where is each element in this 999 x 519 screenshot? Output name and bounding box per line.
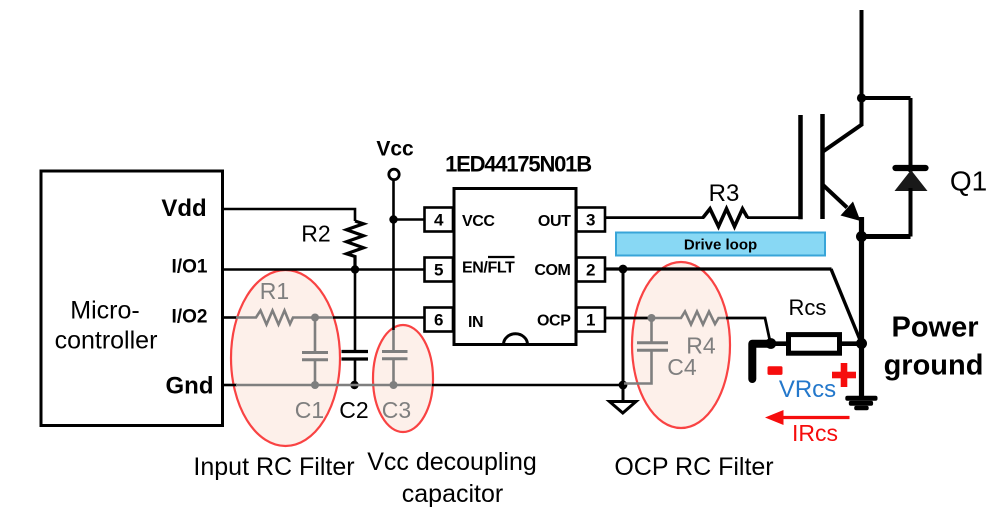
svg-text:capacitor: capacitor <box>402 480 503 508</box>
label IRcs (red) <box>792 420 838 446</box>
wire COM pin 2 rail <box>605 267 832 270</box>
svg-text:VCC: VCC <box>462 213 495 230</box>
wire emitter to diode bottom <box>862 234 911 239</box>
svg-text:IRcs: IRcs <box>792 420 838 446</box>
svg-text:R2: R2 <box>301 221 330 247</box>
resistor R4 <box>652 312 728 359</box>
svg-text:Drive loop: Drive loop <box>684 237 757 254</box>
node I/O1 / R2 / C2 junction <box>351 265 359 273</box>
svg-text:C2: C2 <box>339 397 368 423</box>
wire Vcc vertical <box>392 180 395 330</box>
svg-text:Vcc decoupling: Vcc decoupling <box>367 448 537 476</box>
svg-text:controller: controller <box>55 327 158 355</box>
node OCP / C4 junction <box>648 314 656 322</box>
svg-text:EN/FLT: EN/FLT <box>462 260 515 277</box>
svg-text:Rcs: Rcs <box>789 295 827 320</box>
svg-text:C1: C1 <box>295 397 324 423</box>
svg-text:R3: R3 <box>709 180 740 207</box>
wire OUT pin 3 to R3 <box>605 216 704 219</box>
node power ground / Rcs right <box>856 338 867 349</box>
wire Vdd from microcontroller to R2 top <box>223 209 356 221</box>
node C3 / Gnd junction <box>390 381 398 389</box>
label plus (red) <box>832 363 856 387</box>
node C2 / Gnd junction <box>350 381 358 389</box>
svg-text:6: 6 <box>434 311 443 330</box>
svg-text:OCP: OCP <box>537 313 571 330</box>
wire R1 junction to IN pin 6 <box>315 316 425 319</box>
svg-text:Q1: Q1 <box>950 166 987 197</box>
svg-text:C3: C3 <box>382 397 411 423</box>
drive loop label box <box>616 233 825 256</box>
svg-text:3: 3 <box>586 211 595 230</box>
pin 6 (IN) <box>425 308 454 332</box>
wire I/O1 to pin 5 <box>223 268 425 271</box>
wire collector to diode top <box>862 96 911 100</box>
pin 5 (EN/FLT) <box>425 258 454 282</box>
svg-text:Micro-: Micro- <box>70 297 139 325</box>
wire COM vertical to signal ground <box>622 269 625 402</box>
pin 2 (COM) <box>577 258 606 282</box>
node collector junction <box>857 93 866 102</box>
power ground symbol <box>845 396 877 411</box>
wire collector top lead <box>860 10 864 126</box>
capacitor C2 <box>339 270 368 424</box>
node R1 / C1 junction <box>311 314 319 322</box>
wire R4 to shunt node <box>726 318 771 344</box>
svg-text:1: 1 <box>586 311 595 330</box>
svg-text:Vdd: Vdd <box>161 195 206 222</box>
pin 1 (OCP) <box>577 308 606 332</box>
highlight ellipse: OCP RC Filter <box>632 262 730 428</box>
shunt resistor Rcs <box>771 295 862 353</box>
svg-text:I/O1: I/O1 <box>172 257 208 278</box>
label Power ground <box>884 312 984 382</box>
transistor Q1 (IGBT) <box>801 114 988 221</box>
label VRcs (blue) <box>779 376 836 403</box>
wire OCP pin 1 <box>605 317 652 320</box>
wire Vcc branch to pin 4 <box>394 218 425 221</box>
pin 3 (OUT) <box>577 208 606 232</box>
svg-text:2: 2 <box>586 261 595 280</box>
Vcc terminal <box>376 138 414 180</box>
wire thick emitter return stub <box>752 344 770 379</box>
svg-text:COM: COM <box>534 262 570 279</box>
wire emitter vertical to power ground <box>859 217 864 397</box>
svg-text:ground: ground <box>884 350 984 382</box>
node C1 / Gnd junction <box>311 381 319 389</box>
svg-text:OCP RC Filter: OCP RC Filter <box>614 453 773 481</box>
svg-text:OUT: OUT <box>538 213 571 230</box>
node Vcc / pin4 branch <box>389 215 397 223</box>
svg-text:Gnd: Gnd <box>166 373 214 400</box>
svg-text:VRcs: VRcs <box>779 376 836 403</box>
highlight ellipse: Input RC Filter <box>231 270 340 446</box>
gate driver IC U1 1ED44175N01B <box>445 152 591 345</box>
svg-text:Vcc: Vcc <box>376 138 414 161</box>
caption Input RC Filter <box>193 453 354 481</box>
pin 4 (VCC) <box>425 208 454 232</box>
resistor R1 <box>236 278 315 325</box>
wire COM diagonal to power ground node <box>831 269 862 344</box>
resistor R3 <box>703 180 748 227</box>
wire Gnd rail <box>223 384 624 387</box>
capacitor C1 <box>295 318 328 424</box>
svg-text:IN: IN <box>468 314 483 331</box>
caption OCP RC Filter <box>614 453 773 481</box>
node Rcs left terminal <box>765 338 776 349</box>
svg-text:Input RC Filter: Input RC Filter <box>193 453 354 481</box>
highlight ellipse: Vcc decoupling capacitor C3 <box>373 325 433 432</box>
node COM / ground branch <box>619 265 628 274</box>
svg-text:R1: R1 <box>260 278 289 304</box>
diode D1 (freewheeling) <box>895 98 928 237</box>
svg-text:Power: Power <box>891 312 978 344</box>
svg-text:C4: C4 <box>667 354 697 380</box>
caption Vcc decoupling capacitor <box>367 448 537 508</box>
svg-text:I/O2: I/O2 <box>172 307 208 328</box>
wire R3 to IGBT gate <box>747 216 801 219</box>
label minus (red) <box>768 366 783 375</box>
svg-text:5: 5 <box>434 261 443 280</box>
wire I/O2 stub from box <box>223 316 238 319</box>
ground (signal) <box>610 402 637 414</box>
capacitor C4 <box>624 318 697 384</box>
node emitter junction <box>856 231 867 242</box>
arrow IRcs current direction (red) <box>765 410 850 425</box>
microcontroller box U2 <box>41 171 223 426</box>
node Gnd rail / ground symbol <box>619 381 628 390</box>
svg-text:1ED44175N01B: 1ED44175N01B <box>445 152 591 177</box>
capacitor C3 <box>382 330 411 423</box>
svg-text:4: 4 <box>434 211 444 230</box>
resistor R2 <box>301 221 363 270</box>
